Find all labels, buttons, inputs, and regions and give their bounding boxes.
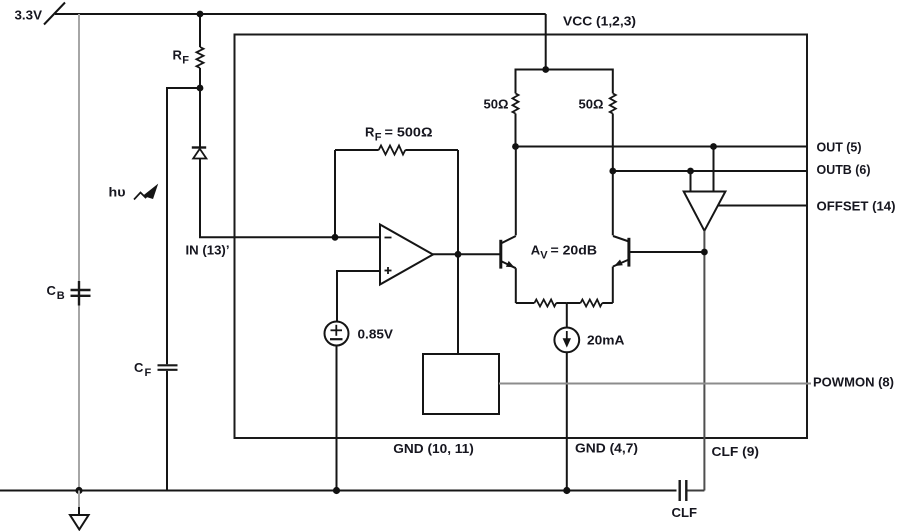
svg-text:20mA: 20mA bbox=[587, 333, 625, 348]
transistor Q1 bbox=[501, 236, 516, 269]
node junction VCC rail bbox=[542, 66, 549, 73]
svg-text:R: R bbox=[173, 48, 183, 63]
wire CLF cap to CLF column bbox=[688, 490, 705, 492]
wire feedback left column bbox=[334, 150, 336, 237]
svg-text:CLF (9): CLF (9) bbox=[712, 444, 760, 459]
svg-text:0.85V: 0.85V bbox=[358, 327, 394, 342]
node junction inverting input bbox=[332, 234, 339, 241]
wire Q2 emitter bbox=[612, 267, 614, 304]
wire photodiode anode to IN node bbox=[200, 159, 380, 238]
node junction RF / CF / photodiode bbox=[197, 85, 204, 92]
wire VCC entry bbox=[545, 14, 547, 70]
wire feedback top run right bbox=[405, 149, 458, 151]
wire OFFSET line bbox=[718, 205, 807, 207]
wire POWMON (gray) bbox=[499, 383, 811, 385]
svg-text:= 20dB: = 20dB bbox=[551, 243, 598, 258]
op-amp U1 bbox=[380, 225, 433, 285]
resistor RE left (emitter degeneration) bbox=[516, 300, 567, 307]
svg-text:C: C bbox=[47, 283, 57, 298]
svg-text:50Ω: 50Ω bbox=[484, 97, 509, 112]
wire collector supply rail bbox=[516, 70, 613, 94]
capacitor CF bbox=[158, 365, 178, 370]
wire CB branch (gray) bbox=[78, 14, 80, 491]
wire CF bottom lead bbox=[166, 371, 168, 491]
off-page connector slash (3.3V) bbox=[44, 3, 65, 25]
wire buffer input stub from OUTB bbox=[690, 171, 692, 192]
photon arrow bbox=[134, 186, 157, 200]
node junction offset feedback / Q2 base bbox=[701, 249, 708, 256]
svg-text:V: V bbox=[540, 249, 548, 261]
wire 3.3V supply rail bbox=[55, 13, 546, 15]
svg-text:F: F bbox=[182, 54, 189, 66]
resistor 50 ohm right bbox=[610, 93, 616, 113]
capacitor CB bbox=[71, 281, 91, 306]
svg-text:POWMON (8): POWMON (8) bbox=[813, 375, 894, 390]
wire RF top lead bbox=[199, 14, 201, 47]
svg-text:GND (10, 11): GND (10, 11) bbox=[393, 441, 474, 456]
svg-text:B: B bbox=[57, 290, 65, 302]
wire feedback top run bbox=[335, 149, 379, 151]
wire OUT line bbox=[516, 146, 808, 148]
wire noninverting input bbox=[337, 271, 380, 322]
buffer A2 (offset amplifier) bbox=[684, 192, 726, 231]
node junction ground bus / tail current bbox=[563, 487, 570, 494]
wire RF bottom lead bbox=[199, 68, 201, 88]
wire buffer input stub from OUT bbox=[713, 147, 715, 192]
wire tail node to current source bbox=[566, 303, 568, 328]
node junction OUTB / 50 ohm bbox=[609, 168, 616, 175]
svg-text:IN (13)’: IN (13)’ bbox=[186, 243, 230, 258]
node junction OUT / buffer input bbox=[710, 143, 717, 150]
svg-text:3.3V: 3.3V bbox=[15, 8, 43, 23]
resistor 50 ohm left bbox=[513, 93, 519, 113]
node junction ground bus / CB bbox=[75, 487, 82, 494]
wire 50 ohm right lower lead bbox=[612, 114, 614, 172]
resistor RF = 500 ohm bbox=[379, 146, 406, 155]
wire Q2 base to offset feedback bbox=[629, 251, 705, 253]
block power monitor bbox=[423, 354, 499, 414]
voltage source 0.85V bbox=[325, 322, 349, 346]
wire feedback right column / op-amp output column bbox=[457, 150, 459, 354]
wire photodiode cathode lead bbox=[199, 88, 201, 148]
svg-text:GND (4,7): GND (4,7) bbox=[575, 441, 638, 456]
node junction ground bus / 0.85V bbox=[333, 487, 340, 494]
svg-text:C: C bbox=[134, 360, 144, 375]
IC boundary box bbox=[235, 35, 808, 439]
capacitor CLF bbox=[680, 480, 687, 501]
wire offset output / CLF column (gray) bbox=[703, 231, 705, 491]
wire 50 ohm left lower lead bbox=[515, 114, 517, 147]
svg-text:hυ: hυ bbox=[109, 185, 126, 200]
wire ground bus bbox=[0, 490, 677, 492]
wire Q1 emitter bbox=[515, 268, 517, 303]
resistor RE right (emitter degeneration) bbox=[567, 300, 613, 307]
photodiode D1 bbox=[192, 148, 207, 159]
node junction OUT / 50 ohm bbox=[512, 143, 519, 150]
wire OUTB line bbox=[613, 170, 807, 172]
svg-text:CLF: CLF bbox=[672, 505, 698, 520]
resistor RF bbox=[197, 47, 204, 68]
node junction op-amp output bbox=[455, 251, 462, 258]
wire op-amp output to Q1 base bbox=[433, 253, 501, 255]
ground symbol bbox=[70, 491, 89, 530]
node junction OUTB / buffer input bbox=[687, 168, 694, 175]
svg-text:OUT (5): OUT (5) bbox=[817, 140, 862, 155]
wire current source to GND(4,7) bbox=[566, 352, 568, 490]
svg-text:OUTB (6): OUTB (6) bbox=[817, 162, 871, 177]
wire 0.85V to ground bus bbox=[336, 346, 338, 491]
svg-text:F: F bbox=[375, 131, 382, 143]
wire Q2 collector bbox=[612, 171, 614, 235]
current source 20mA bbox=[554, 328, 579, 353]
svg-text:VCC (1,2,3): VCC (1,2,3) bbox=[563, 14, 636, 29]
transistor Q2 bbox=[613, 236, 629, 267]
svg-text:OFFSET (14): OFFSET (14) bbox=[817, 199, 896, 214]
svg-text:= 500Ω: = 500Ω bbox=[385, 125, 433, 140]
node junction 3.3V / RF tap bbox=[197, 11, 204, 18]
svg-text:R: R bbox=[365, 125, 375, 140]
svg-text:F: F bbox=[145, 367, 152, 379]
svg-text:50Ω: 50Ω bbox=[579, 97, 604, 112]
wire Q1 collector bbox=[515, 147, 517, 236]
wire CF branch bbox=[167, 88, 200, 364]
